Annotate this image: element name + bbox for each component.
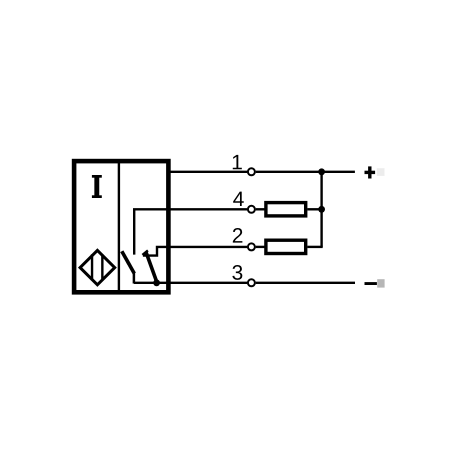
wire pin4 (internal, down to switch S1) <box>134 209 247 254</box>
plus sign <box>365 166 376 178</box>
switch S1 blade (NO contact) <box>122 251 135 273</box>
wire resistor R1 to bus <box>307 208 321 210</box>
terminal circle 2 <box>248 243 255 250</box>
resistor R1 (load, pin4) <box>266 203 306 216</box>
junction dot R1/bus <box>318 206 325 213</box>
plus terminal pad (light gray) <box>377 168 385 176</box>
minus terminal pad (gray) <box>377 279 384 287</box>
label pin 3 <box>232 265 242 280</box>
label pin 4 <box>233 192 244 206</box>
sensor body box <box>74 161 168 292</box>
switch S2 blade (NC contact) <box>146 252 157 281</box>
wire terminal4 to resistor R1 <box>256 208 265 210</box>
junction dot S2 pivot on minus rail <box>153 279 160 286</box>
switch S1 pivot stem <box>133 272 136 283</box>
vertical bus wire <box>320 172 322 247</box>
wire pin1 to plus <box>256 171 355 173</box>
sensing-face diamond symbol <box>80 250 115 284</box>
sensor box divider <box>118 161 120 292</box>
letter I (inductive sensor symbol) <box>92 175 102 198</box>
wire pin1 (box to terminal) <box>169 171 248 173</box>
minus sign <box>365 282 377 285</box>
wire pin3 (common bottom rail) <box>134 282 247 284</box>
terminal circle 3 <box>248 279 255 286</box>
wire terminal2 to resistor R2 <box>256 246 265 248</box>
wire pin2 (internal step to switch S2) <box>143 247 247 256</box>
resistor R2 (load, pin2) <box>266 240 306 253</box>
wire pin3 to minus <box>256 282 355 284</box>
label pin 2 <box>233 228 243 243</box>
terminal circle 1 <box>248 168 255 175</box>
terminal circle 4 <box>248 206 255 213</box>
junction dot pin1/vertical <box>318 168 325 175</box>
label pin 1 <box>233 155 242 169</box>
wire resistor R2 to bus corner <box>307 246 322 248</box>
switch S2 NC stop bar <box>142 250 148 255</box>
